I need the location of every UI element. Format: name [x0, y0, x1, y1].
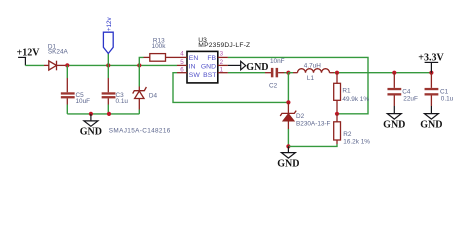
inductor L1: [288, 69, 334, 73]
wire SW net route: [173, 73, 288, 103]
node junction rail-C1-3V3: [429, 71, 433, 75]
svg-text:GND: GND: [201, 63, 216, 70]
svg-text:2: 2: [220, 59, 224, 66]
wire D2 to R2 bottom: [288, 144, 337, 146]
node junction bottomrail-C3: [107, 112, 111, 116]
svg-text:10uF: 10uF: [76, 98, 91, 105]
svg-text:+3.3V: +3.3V: [418, 52, 444, 63]
svg-text:BST: BST: [203, 72, 216, 79]
svg-text:4: 4: [180, 51, 184, 58]
pin 6 SW: [177, 72, 187, 74]
svg-text:EN: EN: [189, 55, 199, 62]
svg-text:10nF: 10nF: [270, 58, 285, 65]
wire main +12 rail: [67, 64, 177, 66]
svg-text:R2: R2: [343, 131, 352, 138]
supply +3.3V: [425, 62, 439, 72]
svg-text:SK24A: SK24A: [48, 48, 69, 55]
svg-text:D2: D2: [296, 113, 305, 120]
svg-text:GND: GND: [80, 126, 102, 137]
pin 2 GND: [218, 64, 228, 66]
svg-text:GND: GND: [277, 158, 299, 169]
ground GND under C4: [387, 106, 401, 119]
capacitor C5: [61, 65, 75, 114]
diode D1: [44, 61, 67, 71]
node junction SW-C2-L1: [286, 71, 290, 75]
svg-text:B230A-13-F: B230A-13-F: [296, 120, 331, 127]
node junction rail-flag-C3: [106, 63, 110, 67]
svg-text:49.9k 1%: 49.9k 1%: [342, 96, 369, 103]
node junction FB divider: [335, 112, 339, 116]
node junction bottomrail-gnd: [89, 112, 93, 116]
svg-text:L1: L1: [307, 75, 315, 82]
wire output rail: [334, 72, 431, 74]
ground GND under C1: [424, 106, 438, 119]
svg-text:D4: D4: [149, 93, 158, 100]
svg-text:+12V: +12V: [17, 47, 41, 58]
diode D2 schottky: [280, 102, 296, 146]
ground GND4 under D2: [281, 146, 295, 158]
svg-text:SW: SW: [189, 72, 201, 79]
svg-text:FB: FB: [207, 55, 216, 62]
svg-text:16.2k 1%: 16.2k 1%: [343, 139, 370, 146]
resistor R13: [139, 54, 177, 66]
ground GND1: [84, 114, 98, 126]
resistor R1: [334, 73, 341, 114]
pin 4 EN: [177, 56, 187, 58]
svg-text:0.1u: 0.1u: [116, 98, 129, 105]
svg-text:1: 1: [220, 67, 224, 74]
svg-text:SMAJ15A-C148216: SMAJ15A-C148216: [109, 128, 171, 135]
svg-text:C4: C4: [402, 88, 411, 95]
pin 5 IN: [177, 64, 187, 66]
node junction D2-R2gnd: [286, 144, 290, 148]
svg-text:100k: 100k: [152, 43, 167, 50]
svg-text:6: 6: [180, 67, 184, 74]
svg-text:3: 3: [220, 51, 224, 58]
svg-text:C2: C2: [269, 83, 278, 90]
capacitor C2: [228, 68, 289, 77]
svg-text:C1: C1: [440, 88, 449, 95]
wire +12V to D1: [25, 64, 44, 66]
node junction SW-D2: [286, 100, 290, 104]
svg-text:GND: GND: [246, 62, 268, 73]
svg-text:0.1u: 0.1u: [441, 95, 454, 102]
node junction rail-R1: [335, 71, 339, 75]
wire bottom-left gnd rail: [67, 113, 139, 115]
svg-text:+12v: +12v: [106, 17, 113, 31]
svg-text:5: 5: [180, 59, 184, 66]
svg-text:4.7uH: 4.7uH: [304, 63, 321, 70]
svg-text:22uF: 22uF: [403, 95, 418, 102]
svg-text:GND: GND: [420, 119, 442, 130]
svg-text:MP2359DJ-LF-Z: MP2359DJ-LF-Z: [198, 42, 250, 49]
node junction rail-R13-D4: [137, 63, 141, 67]
resistor R2: [334, 114, 341, 144]
ground GND2 at pin2: [228, 61, 246, 70]
node junction rail-C5: [65, 63, 69, 67]
node junction rail-C4: [392, 71, 396, 75]
svg-text:GND: GND: [383, 119, 405, 130]
supply +12V: [18, 57, 26, 65]
pin 3 FB: [218, 56, 228, 58]
wire FB net route: [228, 57, 368, 113]
IC U3 MP2359DJ-LF-Z buck regulator: [187, 51, 218, 83]
capacitor C3: [102, 65, 116, 114]
pin 1 BST: [218, 72, 228, 74]
wire SW vertical: [287, 73, 289, 103]
capacitor C4: [387, 73, 401, 106]
supply flag +12v: [103, 17, 113, 66]
diode D4 TVS: [133, 65, 147, 114]
svg-text:IN: IN: [189, 63, 196, 70]
capacitor C1: [425, 73, 439, 106]
svg-text:R1: R1: [342, 88, 351, 95]
